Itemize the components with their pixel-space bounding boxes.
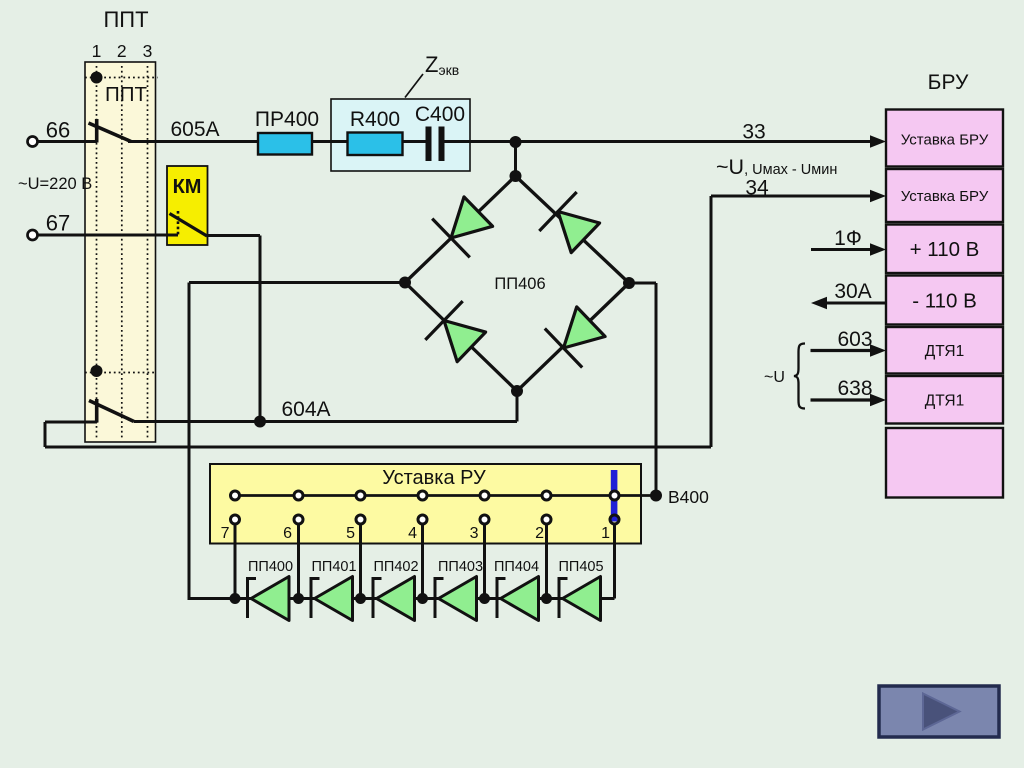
block Zэкв outline (331, 99, 470, 171)
БРУ row -110 В (886, 276, 1003, 325)
bridge edge bottom-left (405, 283, 517, 392)
БРУ row Уставка БРУ 1 (886, 110, 1003, 167)
diode ПП401 (311, 577, 353, 621)
svg-text:~U=220 В: ~U=220 В (18, 175, 92, 193)
pointer line Zэкв (405, 74, 423, 98)
svg-text:Уставка РУ: Уставка РУ (382, 467, 486, 489)
svg-text:C400: C400 (415, 103, 465, 126)
svg-text:ДТЯ1: ДТЯ1 (925, 393, 964, 410)
node tap 6 chain (293, 593, 304, 604)
wire bridge bottom node down (516, 391, 519, 422)
svg-text:ПП402: ПП402 (374, 559, 419, 575)
ППТ lower switch contact bar (95, 399, 99, 423)
diode ПП405 (559, 577, 601, 621)
wire 638 arrow (811, 398, 874, 401)
node 604А (254, 416, 266, 428)
arrowhead 33 into БРУ (870, 135, 886, 147)
wire tap 1 down (613, 525, 616, 599)
svg-text:2: 2 (117, 41, 127, 61)
svg-text:638: 638 (837, 377, 872, 400)
svg-text:ПП406: ПП406 (494, 275, 545, 293)
svg-text:+ 110 В: + 110 В (910, 238, 980, 261)
wire 66 to ППТ contact (38, 140, 98, 143)
ППТ lower switch blade (89, 401, 134, 422)
linkage dotted line bottom (85, 372, 156, 374)
node tap 2 chain (541, 593, 552, 604)
capacitor C400 plate 2 (439, 127, 445, 162)
wire tap 6 down (297, 525, 300, 599)
svg-text:- 110 В: - 110 В (912, 290, 977, 313)
svg-text:1Ф: 1Ф (834, 227, 862, 250)
bridge edge bottom-right (517, 283, 629, 391)
wire КМ to corner (207, 234, 260, 237)
wire 1Ф arrow (811, 248, 873, 251)
РУ lower terminal row (231, 515, 620, 524)
wire tap 5 down (359, 525, 362, 599)
node tap 7 chain (230, 593, 241, 604)
svg-text:ПП405: ПП405 (559, 559, 604, 575)
pole numbers 1 2 3 (92, 41, 153, 61)
БРУ row empty (886, 428, 1003, 498)
svg-text:34: 34 (745, 177, 769, 200)
block Уставка РУ outline (210, 464, 641, 544)
node tap 4 chain (417, 593, 428, 604)
svg-text:66: 66 (46, 118, 70, 143)
БРУ row ДТЯ1 first (886, 327, 1003, 374)
wire 604А horizontal (134, 420, 517, 423)
node on main line above bridge (510, 136, 522, 148)
tap numbers 7-1 (221, 525, 611, 542)
svg-text:ПП403: ПП403 (438, 559, 483, 575)
button play (879, 686, 999, 737)
capacitor C400 plate 1 (426, 127, 432, 162)
wire tap 7 down (234, 525, 237, 599)
svg-text:~U: ~U (764, 369, 785, 386)
arrowhead 34 into БРУ (870, 190, 886, 202)
diode ПП400 (248, 577, 290, 621)
wire 67 to КМ contact (38, 234, 179, 237)
wire 34 to БРУ (711, 195, 873, 198)
svg-text:Уставка БРУ: Уставка БРУ (901, 188, 989, 205)
svg-text:604А: 604А (281, 398, 330, 421)
wire КМ corner down to 604А (259, 236, 262, 422)
КМ contact dotted link (177, 211, 180, 235)
contactor КМ box (167, 166, 208, 245)
junction dot on pole 1 top (91, 72, 103, 84)
БРУ row +110 В (886, 225, 1003, 274)
svg-text:603: 603 (837, 328, 872, 351)
svg-text:ПП400: ПП400 (248, 559, 293, 575)
svg-text:30А: 30А (834, 280, 871, 303)
diode VD1 top-left of bridge ПП406 (432, 197, 492, 258)
wire up to 34 line (710, 196, 713, 447)
КМ switch blade (170, 214, 208, 237)
ППТ upper switch blade (89, 123, 132, 142)
svg-text:ПП401: ПП401 (312, 559, 357, 575)
svg-text:4: 4 (408, 525, 417, 542)
svg-text:7: 7 (221, 525, 230, 542)
terminal 66 (28, 137, 38, 147)
svg-text:67: 67 (46, 211, 70, 236)
node В400 (650, 490, 662, 502)
arrowhead 1Ф (870, 243, 886, 255)
junction dot on pole 1 bottom (91, 365, 103, 377)
wire main line to bridge top (514, 142, 517, 176)
svg-text:33: 33 (742, 121, 765, 144)
wire РУ bus to В400 (235, 494, 656, 497)
РУ upper terminal row (231, 491, 620, 500)
svg-text:1: 1 (92, 41, 102, 61)
diode VD4 bottom-right of bridge ПП406 (545, 307, 605, 368)
svg-text:ПР400: ПР400 (255, 108, 319, 131)
terminal 67 (28, 230, 38, 240)
svg-text:1: 1 (601, 525, 610, 542)
brace for ~U group (794, 344, 805, 409)
diode VD2 top-right of bridge ПП406 (539, 192, 599, 253)
resistor R400 (348, 133, 403, 156)
diode VD3 bottom-left of bridge ПП406 (425, 301, 485, 362)
arrowhead 638 (870, 394, 886, 406)
diode ПП404 (497, 577, 539, 621)
svg-text:ДТЯ1: ДТЯ1 (925, 343, 964, 360)
wire tap 4 down (421, 525, 424, 599)
wire lower switch to left corner (45, 421, 97, 424)
svg-text:6: 6 (283, 525, 292, 542)
wire 30А arrow (825, 302, 886, 305)
wire diode chain bus (189, 597, 615, 600)
arrowhead 30А (811, 297, 827, 309)
wire 33 main line right part (445, 140, 874, 143)
svg-text:В400: В400 (668, 487, 709, 507)
wire bottom bus to БРУ column (45, 446, 711, 449)
wire bridge left node to left bus (189, 281, 405, 284)
svg-text:КМ: КМ (173, 176, 202, 198)
svg-text:ППТ: ППТ (105, 83, 147, 106)
svg-text:R400: R400 (350, 108, 400, 131)
wire tap 3 down (483, 525, 486, 599)
svg-text:Уставка БРУ: Уставка БРУ (901, 132, 989, 149)
svg-text:2: 2 (535, 525, 544, 542)
arrowhead 603 (870, 344, 886, 356)
БРУ row Уставка БРУ 2 (886, 169, 1003, 222)
linkage dotted line top (85, 77, 158, 79)
diode ПП402 (373, 577, 415, 621)
wire tap 2 down (545, 525, 548, 599)
bridge edge top-right (516, 176, 630, 283)
node tap 5 chain (355, 593, 366, 604)
svg-text:ПП404: ПП404 (494, 559, 539, 575)
wire 605А main line left part (128, 140, 427, 143)
node tap 3 chain (479, 593, 490, 604)
node bridge bottom (511, 385, 523, 397)
svg-text:3: 3 (143, 41, 153, 61)
node bridge right (623, 277, 635, 289)
svg-text:605А: 605А (170, 118, 219, 141)
switch block ППТ outline (85, 62, 156, 442)
svg-text:3: 3 (470, 525, 479, 542)
svg-text:БРУ: БРУ (928, 71, 969, 94)
wire bridge right node to right (629, 282, 656, 285)
БРУ row ДТЯ1 second (886, 376, 1003, 424)
wire 603 arrow (811, 349, 874, 352)
wire right bus down to В400 (655, 283, 658, 496)
fuse ПР400 (258, 133, 312, 155)
svg-text:ППТ: ППТ (103, 7, 148, 32)
wire left bus down to diode chain (188, 283, 191, 601)
slider jumper at position 1 (611, 470, 618, 522)
ППТ upper switch contact bar (95, 119, 99, 143)
svg-text:5: 5 (346, 525, 355, 542)
diode ПП403 (435, 577, 477, 621)
bridge edge top-left (405, 176, 516, 283)
node bridge top (510, 170, 522, 182)
node bridge left (399, 277, 411, 289)
wire left corner down (44, 422, 47, 447)
